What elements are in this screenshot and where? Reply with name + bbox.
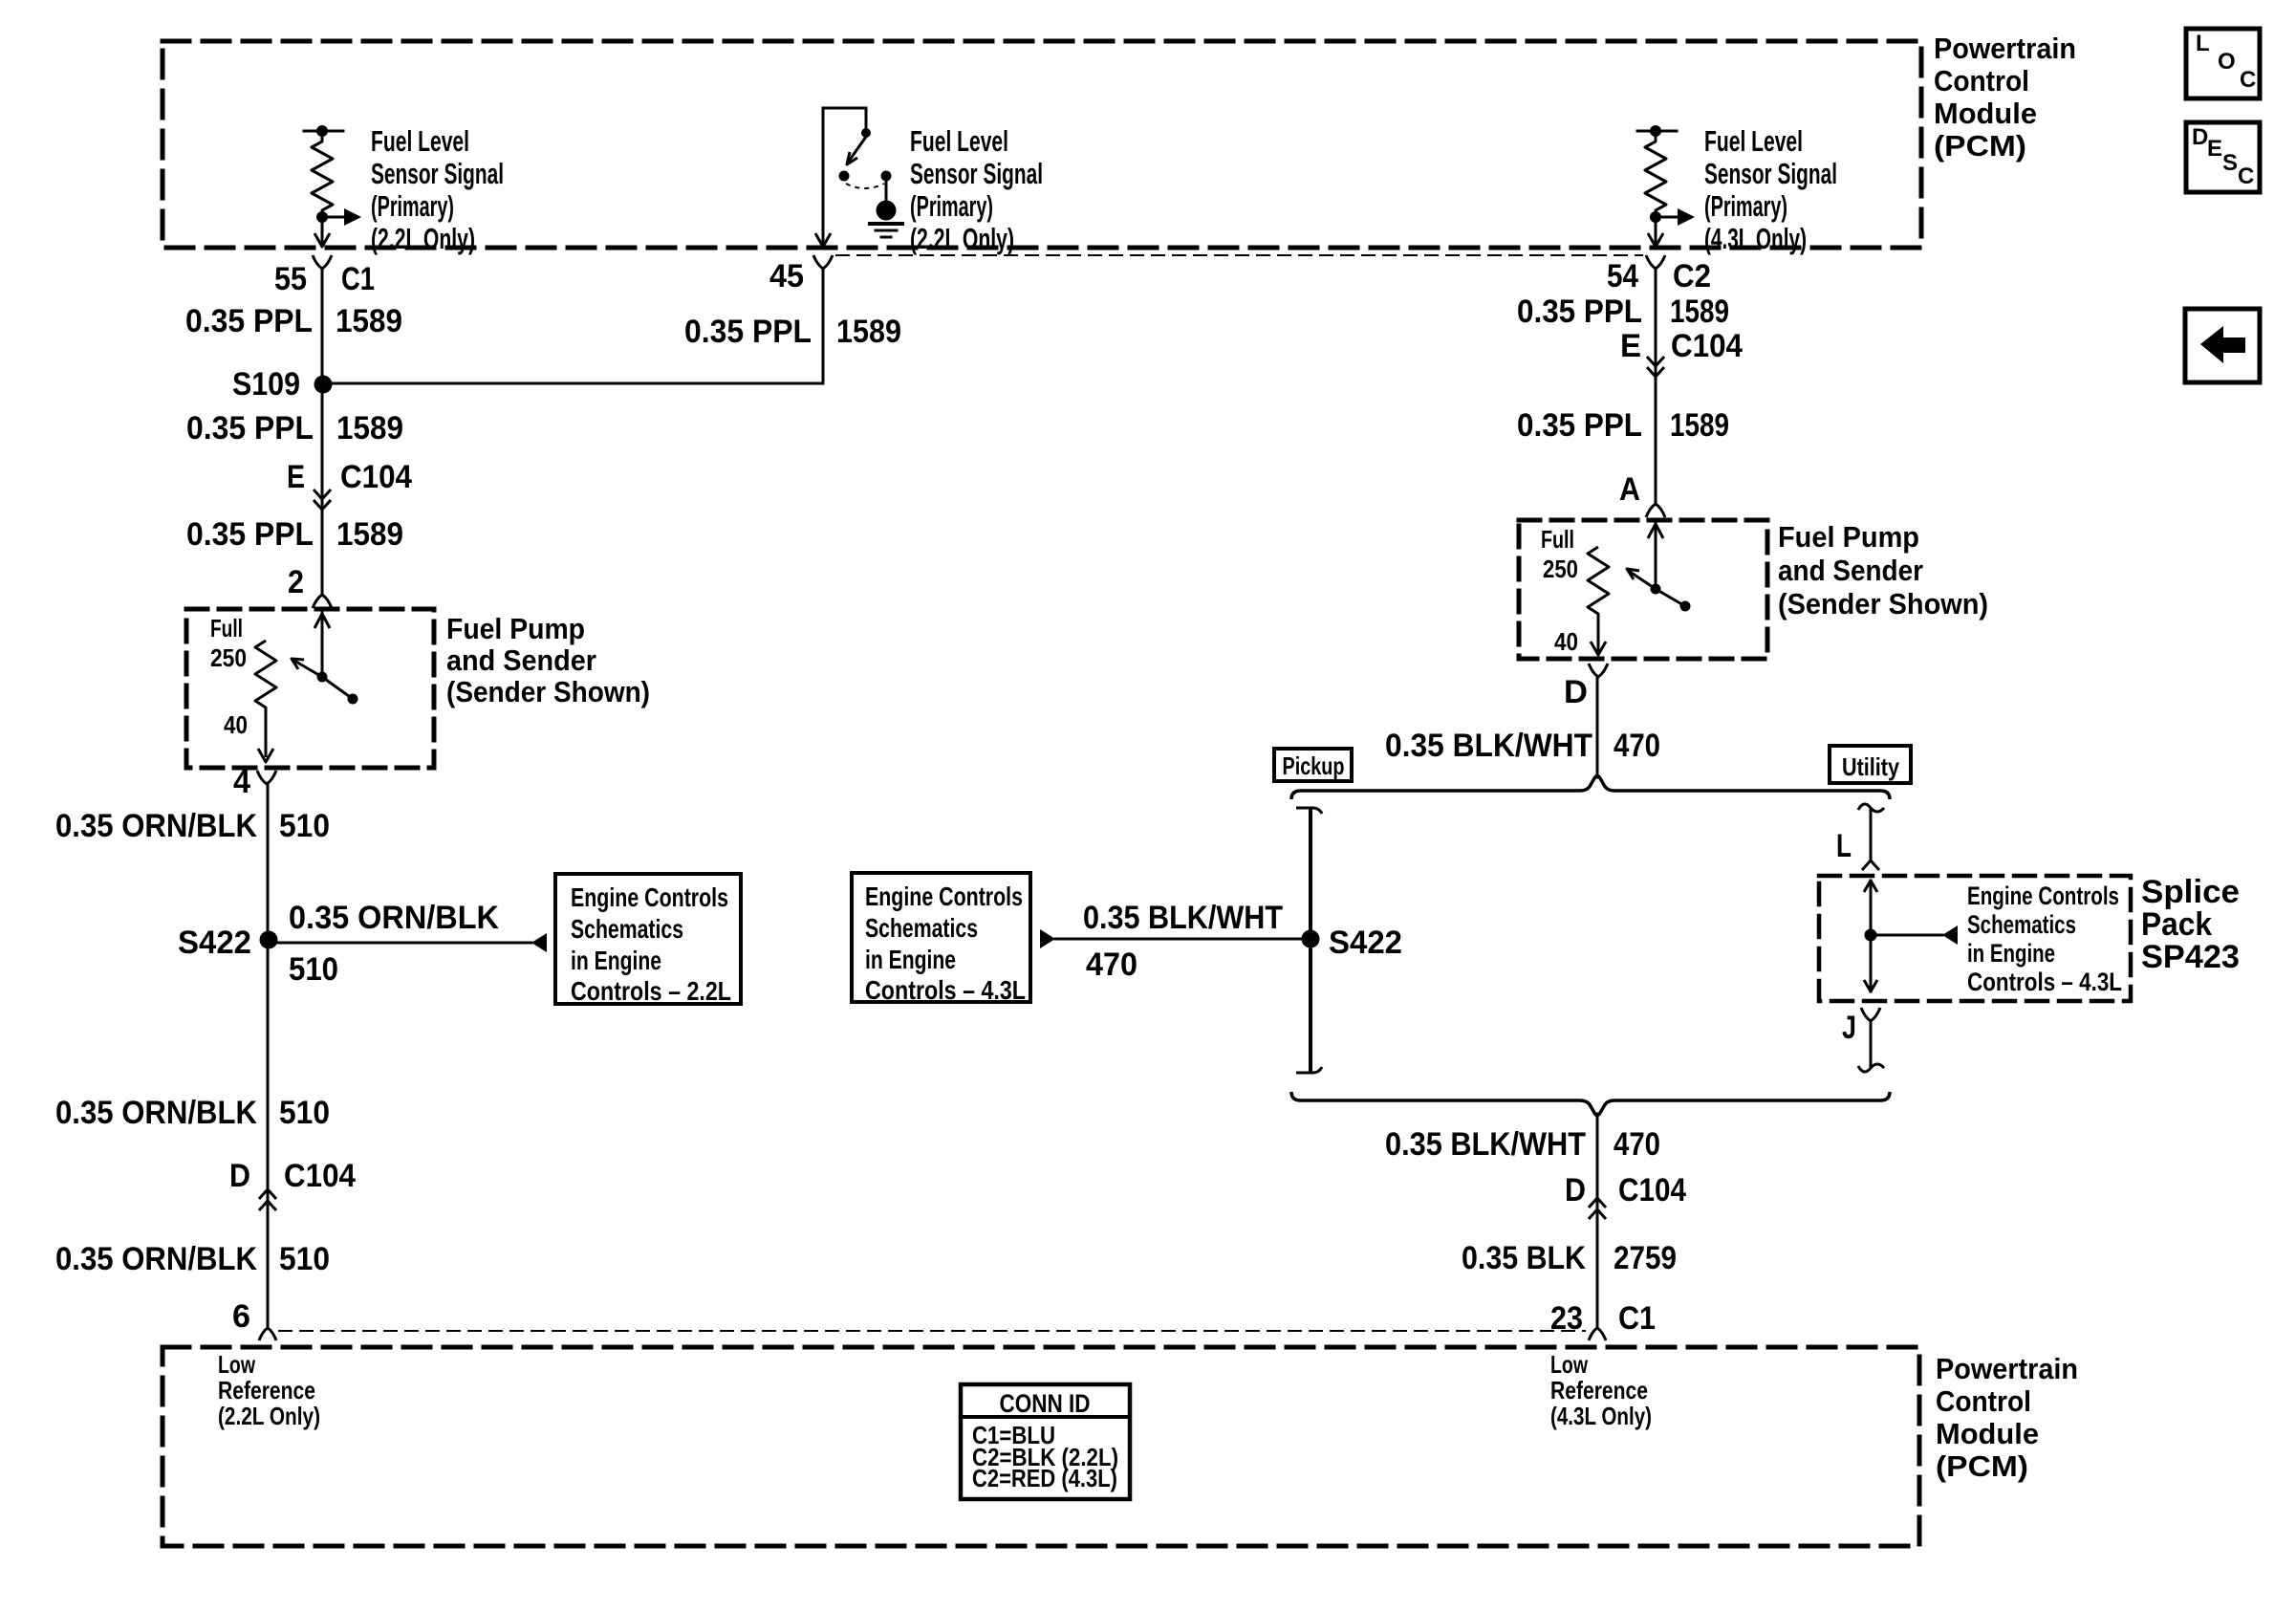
- svg-text:23: 23: [1550, 1300, 1583, 1337]
- sender wiper feed wire with up arrow: [1648, 522, 1663, 589]
- dashed travel arc between contacts: [846, 184, 884, 188]
- svg-text:Fuel Pump: Fuel Pump: [446, 612, 585, 645]
- svg-text:Low: Low: [218, 1350, 256, 1379]
- wire: utility branch to bottom brace: [1870, 1021, 1873, 1066]
- sender wiper tail with dot: [1656, 589, 1691, 612]
- wire: ORN/BLK 510 (4 to S422): [267, 784, 270, 931]
- svg-text:Engine Controls: Engine Controls: [571, 882, 728, 912]
- svg-text:Fuel Pump: Fuel Pump: [1778, 520, 1919, 554]
- sender wiper arm with arrowhead: [1627, 569, 1656, 589]
- svg-text:CONN ID: CONN ID: [1000, 1389, 1091, 1418]
- svg-text:55: 55: [274, 261, 307, 297]
- svg-text:Schematics: Schematics: [865, 913, 978, 943]
- svg-text:Control: Control: [1936, 1384, 2031, 1418]
- svg-text:Low: Low: [1550, 1350, 1589, 1379]
- wire label 0.35 ORN/BLK 510: [55, 1095, 330, 1131]
- svg-text:0.35 PPL: 0.35 PPL: [186, 516, 314, 553]
- svg-text:(2.2L Only): (2.2L Only): [371, 222, 475, 255]
- Pickup trunk bottom cap: [1296, 1067, 1322, 1073]
- svg-text:Powertrain: Powertrain: [1936, 1352, 2078, 1385]
- svg-text:40: 40: [224, 710, 248, 739]
- svg-text:C104: C104: [340, 459, 412, 495]
- label: fuel level sensor signal (2.2L left): [371, 124, 504, 255]
- svg-text:(Primary): (Primary): [371, 189, 454, 223]
- sender wiper pivot: [1651, 584, 1661, 595]
- svg-text:510: 510: [279, 1095, 330, 1131]
- svg-text:Full: Full: [1541, 525, 1574, 554]
- svg-text:Reference: Reference: [218, 1376, 315, 1404]
- connector chevron at pin L: [1862, 860, 1879, 870]
- wire label 0.35 PPL 1589 (45 branch): [684, 314, 901, 350]
- connector boundary dashed line (top, 45 to 54): [836, 254, 1642, 256]
- svg-text:0.35 BLK/WHT: 0.35 BLK/WHT: [1385, 728, 1592, 764]
- signal tap arrow (4.3L right): [1656, 208, 1695, 226]
- svg-text:1589: 1589: [1670, 407, 1729, 444]
- wire: PPL 1589 (S109 to C104 E): [321, 392, 324, 595]
- engine controls schematics 2.2L reference box: [555, 874, 741, 1006]
- svg-text:A: A: [1619, 471, 1640, 508]
- svg-text:Splice: Splice: [2141, 874, 2240, 910]
- splice S422 (2.2L): [178, 925, 278, 961]
- svg-text:C2=RED (4.3L): C2=RED (4.3L): [972, 1464, 1117, 1492]
- arrowhead to pin D: [1591, 642, 1606, 655]
- svg-text:Engine Controls: Engine Controls: [1967, 882, 2119, 910]
- label: engine controls schematics 4.3L (in SP423): [1967, 882, 2122, 996]
- branch wire to 4.3L engine controls (SP423): [1871, 934, 1942, 937]
- wire: PPL 1589 (55 to S109): [321, 269, 324, 377]
- resistor: fuel level sensor signal primary 4.3L (right, in PCM): [1637, 125, 1677, 223]
- wire label 0.35 PPL 1589: [1517, 407, 1729, 444]
- svg-text:250: 250: [1543, 555, 1578, 583]
- svg-text:1589: 1589: [836, 314, 901, 350]
- Utility platform tag box: [1830, 746, 1911, 783]
- label: fuel pump and sender (right): [1778, 520, 1988, 620]
- arrowhead at pin 45 exit: [815, 233, 831, 247]
- svg-text:(Sender Shown): (Sender Shown): [1778, 587, 1988, 620]
- wire label 0.35 PPL 1589: [1517, 294, 1729, 330]
- sender wiper pivot: [317, 672, 328, 683]
- PCM label (top): [1934, 32, 2076, 163]
- svg-text:0.35 PPL: 0.35 PPL: [1517, 294, 1642, 330]
- svg-text:D: D: [229, 1158, 250, 1194]
- svg-text:470: 470: [1614, 1126, 1660, 1163]
- wire label 0.35 ORN/BLK 510: [55, 1241, 330, 1277]
- connector fork below pump pin 4: [257, 771, 276, 784]
- svg-text:(4.3L Only): (4.3L Only): [1704, 222, 1807, 255]
- connector fork C1 pin 55: [313, 255, 332, 269]
- Utility branch fork wave (above bottom brace): [1858, 1064, 1884, 1072]
- wire: PPL 1589 (45 down and left to S109): [332, 269, 823, 383]
- Pickup trunk wire: [1309, 809, 1312, 1072]
- wire label 0.35 PPL 1589: [186, 410, 403, 446]
- svg-text:250: 250: [210, 643, 247, 672]
- switch: fuel level sensor 2.2L (middle) pivot: [861, 128, 871, 138]
- wire label 0.35 ORN/BLK 510: [55, 808, 330, 844]
- svg-text:Fuel Level: Fuel Level: [371, 124, 469, 158]
- switch contact dot (left): [839, 171, 850, 182]
- PCM module dashed box (bottom): [162, 1347, 1919, 1546]
- wire: PPL 1589 (54 to pump A): [1655, 269, 1657, 504]
- svg-text:C1: C1: [1618, 1300, 1656, 1337]
- off-page triangle (4.3L engine controls): [1040, 929, 1055, 948]
- svg-text:6: 6: [232, 1298, 250, 1335]
- branch wire from engine controls 4.3L to S422: [1055, 938, 1302, 941]
- svg-text:in Engine: in Engine: [571, 946, 661, 975]
- wire inside SP423 with up arrow: [1864, 881, 1877, 991]
- label: fuel level sensor signal (2.2L middle): [910, 124, 1043, 255]
- off-page triangle (2.2L engine controls): [531, 933, 547, 952]
- svg-text:0.35 PPL: 0.35 PPL: [185, 303, 313, 339]
- svg-text:C: C: [2240, 67, 2256, 93]
- svg-text:0.35 PPL: 0.35 PPL: [186, 410, 314, 446]
- in-line connector C104 pin E: [287, 459, 412, 510]
- svg-text:0.35 BLK/WHT: 0.35 BLK/WHT: [1385, 1126, 1586, 1163]
- svg-text:S422: S422: [1329, 925, 1402, 961]
- svg-text:Sensor Signal: Sensor Signal: [1704, 157, 1837, 190]
- svg-text:Fuel Level: Fuel Level: [910, 124, 1008, 158]
- label: splice pack SP423: [2141, 874, 2240, 975]
- svg-text:(PCM): (PCM): [1934, 129, 2026, 163]
- svg-text:C104: C104: [1618, 1172, 1686, 1208]
- connector fork C2 pin 54: [1646, 255, 1665, 269]
- ground symbol (ball and bars): [870, 201, 902, 238]
- sender wiper arm with arrowhead: [292, 659, 322, 677]
- svg-text:J: J: [1842, 1010, 1856, 1046]
- label: fuel level sensor signal (4.3L right): [1704, 124, 1837, 255]
- svg-text:Control: Control: [1934, 64, 2029, 98]
- svg-text:Controls – 2.2L: Controls – 2.2L: [571, 976, 731, 1006]
- connector fork at fuel pump pin A: [1646, 504, 1665, 517]
- svg-text:0.35 BLK/WHT: 0.35 BLK/WHT: [1083, 900, 1283, 936]
- svg-text:and Sender: and Sender: [446, 643, 596, 677]
- Utility branch fork wave (below brace): [1858, 804, 1884, 812]
- connector fork at fuel pump pin 2: [313, 595, 332, 608]
- svg-text:C104: C104: [284, 1158, 356, 1194]
- svg-text:Controls – 4.3L: Controls – 4.3L: [865, 975, 1026, 1005]
- connector fork C1 pin 45: [813, 255, 833, 269]
- svg-text:L: L: [2196, 31, 2210, 56]
- Pickup platform tag box: [1274, 749, 1352, 781]
- svg-text:C1: C1: [341, 261, 375, 297]
- svg-text:(2.2L Only): (2.2L Only): [910, 222, 1014, 255]
- branch wire to engine controls 2.2L: [269, 942, 531, 945]
- CONN ID table box: [961, 1384, 1130, 1499]
- svg-text:S109: S109: [232, 366, 300, 403]
- svg-text:0.35 ORN/BLK: 0.35 ORN/BLK: [55, 808, 257, 844]
- svg-text:45: 45: [769, 258, 804, 294]
- harness brace (top): [1291, 776, 1890, 800]
- resistor: sender resistance card (left): [255, 641, 276, 757]
- arrowhead to pin 4: [258, 749, 273, 762]
- engine controls schematics 4.3L reference box: [852, 873, 1030, 1005]
- svg-text:D: D: [1564, 674, 1588, 710]
- sender wiper feed wire with up arrow: [314, 611, 330, 677]
- wire label 0.35 BLK/WHT 470: [1385, 1126, 1660, 1163]
- connector boundary dashed line (bottom, 6 to 23): [279, 1330, 1585, 1332]
- label: low reference 2.2L: [218, 1350, 320, 1430]
- svg-text:E: E: [287, 459, 305, 495]
- svg-text:Module: Module: [1936, 1417, 2039, 1450]
- DESC reference box: [2186, 122, 2260, 192]
- svg-text:Engine Controls: Engine Controls: [865, 882, 1023, 911]
- svg-text:Utility: Utility: [1842, 752, 1899, 781]
- svg-text:in Engine: in Engine: [1967, 939, 2055, 968]
- svg-text:4: 4: [233, 764, 250, 800]
- svg-text:0.35 PPL: 0.35 PPL: [1517, 407, 1642, 444]
- wire label 0.35 PPL 1589: [185, 303, 402, 339]
- svg-text:C104: C104: [1671, 328, 1743, 364]
- svg-text:and Sender: and Sender: [1778, 554, 1923, 587]
- in-line connector C104 pin D (left): [229, 1158, 356, 1210]
- wire label 0.35 BLK/WHT 470: [1385, 728, 1660, 764]
- svg-text:(Primary): (Primary): [910, 189, 993, 223]
- Pickup trunk top cap: [1296, 808, 1322, 814]
- resistor: fuel level sensor signal primary 2.2L (left, in PCM): [304, 125, 343, 223]
- wire: L-shaped lead to 2.2L sender switch (middle, in PCM): [823, 108, 866, 246]
- ground wire stem: [885, 181, 888, 201]
- fuel pump and sender dashed box (left 2.2L): [186, 609, 434, 768]
- svg-text:in Engine: in Engine: [865, 945, 956, 974]
- svg-text:E: E: [2207, 136, 2222, 162]
- svg-text:Schematics: Schematics: [571, 914, 683, 944]
- splice pack SP423 dashed box: [1819, 876, 2131, 1001]
- LOC reference box: [2186, 29, 2260, 98]
- svg-text:510: 510: [289, 951, 338, 988]
- svg-text:S422: S422: [178, 925, 251, 961]
- svg-text:1589: 1589: [336, 303, 402, 339]
- svg-text:0.35 ORN/BLK: 0.35 ORN/BLK: [55, 1095, 257, 1131]
- PCM module dashed box (top): [162, 41, 1921, 248]
- svg-text:S: S: [2222, 150, 2238, 176]
- PCM label (bottom): [1936, 1352, 2078, 1483]
- svg-text:Controls – 4.3L: Controls – 4.3L: [1967, 968, 2122, 996]
- wire label 0.35 BLK 2759: [1462, 1240, 1677, 1276]
- wire: pin 54 exit with arrowhead: [1648, 217, 1663, 247]
- signal tap arrow (2.2L left): [322, 208, 361, 226]
- svg-text:(2.2L Only): (2.2L Only): [218, 1402, 320, 1430]
- connector fork below pump pin D: [1589, 664, 1608, 677]
- svg-text:E: E: [1620, 328, 1641, 364]
- svg-text:1589: 1589: [1670, 294, 1729, 330]
- svg-text:(4.3L Only): (4.3L Only): [1550, 1402, 1652, 1430]
- wire: BLK/WHT 470 (brace to C104 D): [1596, 1114, 1599, 1328]
- svg-text:Sensor Signal: Sensor Signal: [910, 157, 1043, 190]
- svg-text:40: 40: [1554, 627, 1578, 656]
- svg-text:O: O: [2218, 49, 2236, 75]
- harness brace (bottom): [1291, 1092, 1890, 1116]
- sender wiper tail with dot: [322, 677, 358, 705]
- svg-text:Sensor Signal: Sensor Signal: [371, 157, 504, 190]
- svg-text:C: C: [2238, 163, 2254, 189]
- svg-text:D: D: [1565, 1172, 1586, 1208]
- back navigation arrow box: [2185, 309, 2260, 382]
- svg-text:D: D: [2192, 124, 2208, 150]
- svg-text:L: L: [1836, 828, 1852, 864]
- fuel pump and sender dashed box (right 4.3L): [1519, 520, 1767, 659]
- svg-text:0.35 PPL: 0.35 PPL: [684, 314, 812, 350]
- label: low reference 4.3L: [1550, 1350, 1652, 1430]
- svg-text:0.35 BLK: 0.35 BLK: [1462, 1240, 1586, 1276]
- svg-text:0.35 ORN/BLK: 0.35 ORN/BLK: [55, 1241, 257, 1277]
- svg-text:1589: 1589: [336, 516, 403, 553]
- svg-text:1589: 1589: [336, 410, 403, 446]
- svg-text:(Sender Shown): (Sender Shown): [446, 675, 650, 708]
- svg-text:Schematics: Schematics: [1967, 910, 2076, 939]
- svg-text:(PCM): (PCM): [1936, 1449, 2028, 1483]
- connector fork at PCM pin 23: [1589, 1328, 1606, 1340]
- svg-text:470: 470: [1086, 947, 1137, 983]
- in-line connector C104 pin E (right): [1620, 328, 1743, 377]
- svg-text:510: 510: [279, 1241, 330, 1277]
- svg-text:Powertrain: Powertrain: [1934, 32, 2076, 65]
- svg-text:Fuel Level: Fuel Level: [1704, 124, 1803, 158]
- svg-text:Reference: Reference: [1550, 1376, 1648, 1404]
- splice S109: [232, 366, 333, 403]
- label: fuel pump and sender (left): [446, 612, 650, 708]
- wire: utility branch to connector L: [1870, 809, 1873, 860]
- in-line connector C104 pin D (right): [1565, 1172, 1686, 1219]
- wire: BLK/WHT 470 (D to harness brace): [1596, 677, 1599, 777]
- switch contact dot (right): [881, 171, 892, 182]
- switch wiper arm with arrowhead: [847, 137, 866, 164]
- wire: ORN/BLK 510 (S422 to C104 D): [267, 948, 270, 1328]
- svg-text:SP423: SP423: [2141, 939, 2240, 975]
- svg-text:Pack: Pack: [2141, 906, 2212, 943]
- svg-text:C2: C2: [1673, 258, 1711, 294]
- splice S422 (4.3L pickup): [1302, 925, 1403, 961]
- svg-text:510: 510: [279, 808, 330, 844]
- wire label 0.35 PPL 1589: [186, 516, 403, 553]
- svg-text:2759: 2759: [1614, 1240, 1677, 1276]
- connector fork at PCM pin 6: [259, 1328, 276, 1340]
- svg-text:Module: Module: [1934, 97, 2037, 130]
- svg-text:Pickup: Pickup: [1283, 751, 1345, 780]
- off-page triangle (SP423): [1942, 925, 1958, 945]
- resistor: sender resistance card (right): [1588, 547, 1609, 652]
- svg-text:Full: Full: [210, 614, 243, 642]
- splice dot SP423: [1865, 929, 1877, 942]
- svg-text:0.35 ORN/BLK: 0.35 ORN/BLK: [289, 900, 499, 936]
- svg-text:470: 470: [1614, 728, 1660, 764]
- wire: pin 55 exit with arrowhead: [314, 217, 330, 247]
- svg-text:2: 2: [288, 564, 304, 600]
- svg-text:(Primary): (Primary): [1704, 189, 1787, 223]
- svg-text:54: 54: [1607, 258, 1638, 294]
- connector fork at pin J: [1861, 1008, 1880, 1021]
